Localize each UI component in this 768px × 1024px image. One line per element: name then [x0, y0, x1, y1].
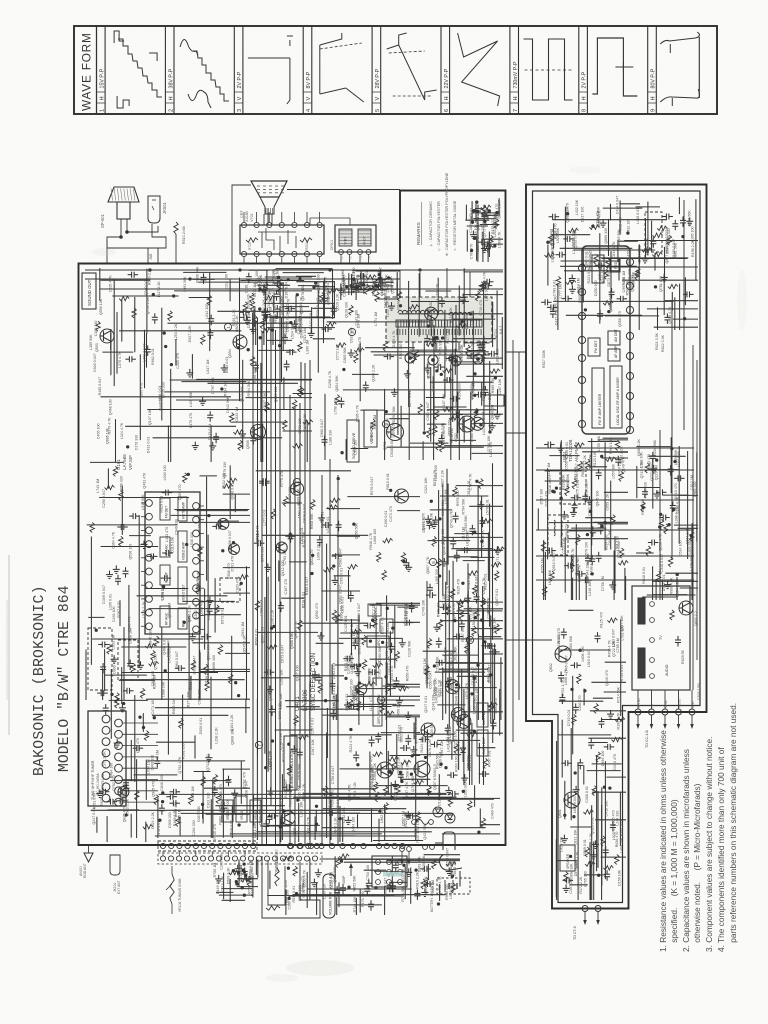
- edge connector pin b8: [361, 843, 366, 848]
- capacitor: [488, 643, 490, 649]
- aux connector pin 20: [312, 856, 317, 861]
- capacitor: [469, 528, 475, 530]
- junction: [278, 344, 281, 347]
- wire: [408, 391, 410, 461]
- wire: [334, 856, 336, 879]
- resistor: [664, 524, 668, 534]
- resistor: [332, 610, 336, 620]
- junction: [356, 286, 359, 289]
- resistor: [453, 487, 457, 497]
- wire: [477, 485, 479, 635]
- CRT socket pin lower 4: [279, 251, 284, 256]
- capacitor: [150, 553, 152, 559]
- wire: [285, 700, 339, 702]
- tuner pin left 8: [102, 794, 110, 802]
- wire: [323, 281, 325, 330]
- capacitor: [123, 570, 129, 572]
- wire: [110, 333, 112, 350]
- IC U101 block FM DET: [160, 498, 170, 520]
- ground: [347, 816, 349, 820]
- resistor: [207, 295, 211, 305]
- aux connector pin 7: [208, 856, 213, 861]
- junction: [476, 480, 479, 483]
- wire: [344, 861, 440, 863]
- marker streak: [383, 872, 403, 877]
- capacitor: [364, 888, 370, 890]
- resistor: [201, 776, 205, 786]
- resistor: [483, 246, 493, 250]
- wire: [470, 533, 488, 535]
- wire: [396, 282, 398, 300]
- capacitor: [235, 868, 241, 870]
- junction: [314, 282, 317, 285]
- wire speaker second: [127, 219, 158, 232]
- wire: [501, 317, 503, 369]
- wire: [497, 389, 499, 413]
- wire: [242, 360, 244, 449]
- capacitor: [154, 760, 160, 762]
- wire: [96, 817, 98, 833]
- junction: [339, 817, 342, 820]
- wire: [326, 544, 328, 621]
- capacitor: [438, 660, 440, 666]
- junction: [235, 880, 238, 883]
- wire: [381, 732, 420, 734]
- capacitor: [257, 540, 259, 546]
- capacitor: [102, 789, 104, 795]
- wire: [465, 219, 489, 221]
- wire: [425, 290, 451, 292]
- transistor: [445, 680, 459, 694]
- wire: [179, 521, 250, 523]
- wire: [121, 299, 123, 341]
- yoke pin T3: [358, 250, 363, 255]
- resistor: [427, 786, 431, 796]
- IC U101 block IF AGC: [160, 537, 170, 557]
- capacitor: [486, 279, 488, 285]
- wire: [270, 624, 272, 805]
- wire: [490, 615, 492, 723]
- resistor: [668, 557, 672, 567]
- wire: [323, 808, 406, 810]
- resistor: [446, 605, 450, 615]
- wire: [456, 549, 503, 551]
- waveform label strip 7: [509, 26, 511, 114]
- junction: [436, 370, 439, 373]
- wire: [316, 642, 344, 644]
- junction: [658, 526, 661, 529]
- wire: [212, 779, 214, 838]
- CRT socket pin 2: [254, 222, 259, 227]
- speaker SP-501 cone: [108, 187, 139, 202]
- wire: [326, 733, 328, 838]
- capacitor: [439, 300, 445, 302]
- CRT socket pin 3: [267, 222, 272, 227]
- wire: [467, 563, 469, 670]
- wire: [270, 324, 272, 345]
- wire: [478, 747, 496, 749]
- wire: [649, 455, 686, 457]
- resistor: [434, 410, 438, 420]
- ring pin 2: [428, 355, 438, 365]
- wire: [471, 628, 503, 630]
- edge connector pin 3: [177, 843, 182, 848]
- wire: [356, 285, 393, 287]
- capacitor: [131, 272, 133, 278]
- wire: [433, 325, 435, 414]
- capacitor: [481, 239, 483, 245]
- wire: [444, 536, 503, 538]
- resistor: [330, 498, 340, 502]
- tuner pin left 2: [102, 726, 110, 734]
- junction: [353, 523, 356, 526]
- wire: [145, 588, 189, 590]
- junction: [183, 621, 186, 624]
- wire: [144, 330, 146, 388]
- wire: [678, 446, 680, 544]
- ground: [381, 280, 383, 284]
- resistor: [298, 620, 302, 630]
- ground: [408, 868, 410, 872]
- wire module vlong: [659, 430, 661, 600]
- resistor: [384, 711, 394, 715]
- junction: [474, 394, 477, 397]
- resistor: [373, 663, 383, 667]
- capacitor: [363, 384, 369, 386]
- wire: [480, 224, 500, 226]
- tuner pin right 6: [115, 776, 123, 784]
- capacitor: [340, 887, 346, 889]
- wire: [175, 339, 177, 366]
- wire: [471, 556, 495, 558]
- wire: [422, 441, 424, 460]
- wire: [121, 485, 123, 534]
- wire: [433, 377, 435, 460]
- IC U101 pin right 6: [193, 571, 200, 578]
- capacitor: [454, 554, 460, 556]
- resistor: [119, 536, 123, 546]
- wire: [674, 524, 698, 526]
- transistor: [118, 787, 129, 798]
- wire: [223, 873, 225, 900]
- wire: [430, 315, 432, 336]
- capacitor: [353, 664, 355, 670]
- wire: [451, 361, 480, 363]
- ground: [443, 558, 445, 562]
- resistor: [336, 857, 340, 867]
- wire jack down-left: [147, 248, 149, 263]
- wire: [482, 653, 503, 655]
- wire: [174, 509, 249, 511]
- junction: [95, 629, 98, 632]
- wire: [303, 792, 446, 794]
- wire: [415, 718, 417, 841]
- capacitor: [269, 708, 275, 710]
- capacitor: [437, 364, 439, 370]
- wire: [389, 631, 391, 696]
- wire: [496, 290, 498, 355]
- resistor: [318, 683, 322, 693]
- wire: [359, 281, 394, 283]
- junction: [345, 285, 348, 288]
- junction: [287, 867, 290, 870]
- capacitor: [262, 478, 264, 484]
- resistor: [443, 368, 453, 372]
- wire: [309, 683, 311, 841]
- wire: [483, 283, 485, 391]
- edge connector pin 6: [201, 843, 206, 848]
- wire: [397, 510, 420, 512]
- wire: [222, 768, 250, 770]
- junction: [237, 347, 240, 350]
- wire: [482, 238, 504, 240]
- ground: [653, 465, 655, 469]
- wire: [343, 291, 364, 293]
- wire: [637, 487, 660, 489]
- wire: [324, 797, 361, 799]
- ground: [408, 563, 410, 567]
- junction: [476, 210, 479, 213]
- ground: [496, 546, 498, 550]
- wire: [177, 510, 248, 512]
- ground: [270, 787, 272, 791]
- capacitor: [378, 277, 380, 283]
- junction: [385, 410, 388, 413]
- wire: [119, 600, 121, 626]
- arrow mark 400P: [350, 866, 352, 876]
- resistor: [216, 794, 220, 804]
- resistor: [415, 350, 419, 360]
- IC U101 pin left 10: [146, 623, 153, 630]
- resistor: [412, 353, 416, 363]
- ground: [242, 430, 244, 434]
- resistor: [250, 356, 254, 366]
- capacitor: [276, 280, 278, 286]
- wire: [267, 327, 335, 329]
- IC U101 pin left 9: [146, 609, 153, 616]
- resistor: [646, 546, 650, 556]
- wire: [359, 343, 361, 402]
- junction: [392, 627, 395, 630]
- wire: [269, 871, 271, 889]
- wire: [202, 804, 204, 819]
- resistor: [352, 629, 362, 633]
- wire: [446, 469, 448, 585]
- wire: [337, 686, 339, 720]
- wire: [378, 298, 397, 300]
- wire: [364, 869, 386, 871]
- capacitor: [650, 455, 656, 457]
- edge connector pin b4: [319, 843, 324, 848]
- label box EARR DC: [477, 703, 488, 727]
- wire: [356, 270, 401, 272]
- transistor: [395, 489, 409, 503]
- resistor: [491, 563, 501, 567]
- edge connector pin b7: [350, 843, 355, 848]
- wire: [222, 899, 246, 901]
- resistor: [131, 663, 135, 673]
- wire: [161, 308, 163, 421]
- wire: [90, 461, 123, 463]
- IC U101 pin left 2: [146, 513, 153, 520]
- capacitor: [387, 354, 389, 360]
- wire: [397, 606, 418, 608]
- capacitor: [492, 649, 494, 655]
- capacitor: [201, 276, 207, 278]
- capacitor: [136, 745, 138, 751]
- wire: [229, 879, 231, 902]
- capacitor: [432, 336, 434, 342]
- aux connector pin 14: [264, 856, 269, 861]
- resistor: [459, 610, 463, 620]
- tuner pin left 3: [102, 738, 110, 746]
- wire: [116, 312, 118, 374]
- wire: [440, 620, 503, 622]
- junction: [316, 662, 319, 665]
- resistor: [265, 402, 269, 412]
- IC U101 pin left 7: [146, 582, 153, 589]
- ground: [293, 745, 295, 749]
- tuner pin right 7: [115, 787, 123, 795]
- transformer T701 core comb: [396, 320, 482, 327]
- tuner pin left 6: [102, 772, 110, 780]
- waveform trace 9: [660, 32, 699, 44]
- wire: [85, 650, 87, 701]
- wire: [295, 296, 297, 333]
- wire: [216, 891, 234, 893]
- wire: [298, 803, 300, 824]
- wire: [454, 349, 456, 375]
- wire: [371, 351, 489, 353]
- wire: [472, 452, 503, 454]
- wire: [389, 418, 409, 420]
- wire: [458, 603, 460, 770]
- capacitor: [434, 741, 436, 747]
- wire: [696, 452, 698, 541]
- edge pin far right: [423, 845, 428, 850]
- edge connector pin b2: [298, 843, 303, 848]
- resistor: [243, 302, 247, 312]
- tuner pin right 5: [115, 764, 123, 772]
- tuner box: [88, 711, 126, 806]
- resistor: [657, 571, 661, 581]
- wire: [453, 338, 496, 340]
- capacitor: [100, 690, 102, 696]
- junction: [244, 875, 247, 878]
- IC U101 pin right 5: [193, 557, 200, 564]
- aux connector pin 17: [288, 856, 293, 861]
- resistor: [282, 856, 292, 860]
- wire: [321, 590, 360, 592]
- resistor R513: [174, 222, 178, 234]
- resistor: [440, 442, 444, 452]
- capacitor: [670, 505, 676, 507]
- wire: [483, 336, 485, 428]
- resistor: [690, 531, 694, 541]
- wire: [321, 788, 376, 790]
- wire: [450, 439, 476, 441]
- wire: [130, 814, 132, 838]
- capacitor: [389, 646, 395, 648]
- wire: [351, 703, 397, 705]
- resistor: [326, 322, 336, 326]
- capacitor: [354, 283, 360, 285]
- wire: [90, 537, 92, 665]
- wire: [110, 329, 112, 375]
- junction: [329, 793, 332, 796]
- capacitor: [213, 436, 219, 438]
- wire: [373, 840, 423, 842]
- wire: [120, 679, 245, 681]
- resistor: [457, 600, 467, 604]
- wire: [376, 602, 420, 604]
- aux connector pin 13: [256, 856, 261, 861]
- junction: [290, 321, 293, 324]
- capacitor: [274, 293, 280, 295]
- wire: [437, 739, 480, 741]
- fuse F801: [412, 820, 417, 825]
- junction speaker b: [126, 231, 129, 234]
- wire: [467, 357, 503, 359]
- capacitor: [267, 669, 269, 675]
- wire: [293, 675, 344, 677]
- resistor: [454, 744, 458, 754]
- resistor: [293, 444, 303, 448]
- resistor: [218, 645, 222, 655]
- wire: [298, 813, 300, 842]
- junction: [476, 201, 479, 204]
- wire: [438, 662, 479, 664]
- wire bottom pins drop: [162, 851, 164, 856]
- resistor: [227, 478, 237, 482]
- junction: [359, 664, 362, 667]
- wire: [337, 535, 360, 537]
- IC U101 block VIDEO AMP: [178, 531, 187, 562]
- wire: [435, 671, 486, 673]
- capacitor: [165, 490, 167, 496]
- capacitor: [414, 892, 420, 894]
- junction: [172, 295, 175, 298]
- capacitor: [450, 540, 456, 542]
- wire: [442, 654, 478, 656]
- junction: [162, 586, 165, 589]
- label box VIDEO OUT: [364, 410, 377, 447]
- wire: [146, 269, 148, 334]
- capacitor: [207, 414, 213, 416]
- capacitor: [338, 400, 344, 402]
- aux connector pin 8: [216, 856, 221, 861]
- IC U101 pin right 3: [193, 530, 200, 537]
- resistor: [105, 485, 115, 489]
- wire: [188, 616, 190, 700]
- wire: [199, 652, 201, 700]
- wire: [161, 627, 163, 700]
- wire: [464, 608, 503, 610]
- capacitor: [348, 595, 354, 597]
- wire: [145, 822, 147, 842]
- junction: [170, 363, 173, 366]
- capacitor: [123, 782, 129, 784]
- wire: [479, 809, 481, 828]
- wire: [430, 381, 493, 383]
- waveform table frame: [74, 26, 717, 114]
- wire: [261, 677, 291, 679]
- capacitor: [450, 772, 452, 778]
- wire: [408, 281, 410, 407]
- resistor: [354, 353, 358, 363]
- wire: [229, 279, 231, 301]
- wire: [219, 894, 253, 896]
